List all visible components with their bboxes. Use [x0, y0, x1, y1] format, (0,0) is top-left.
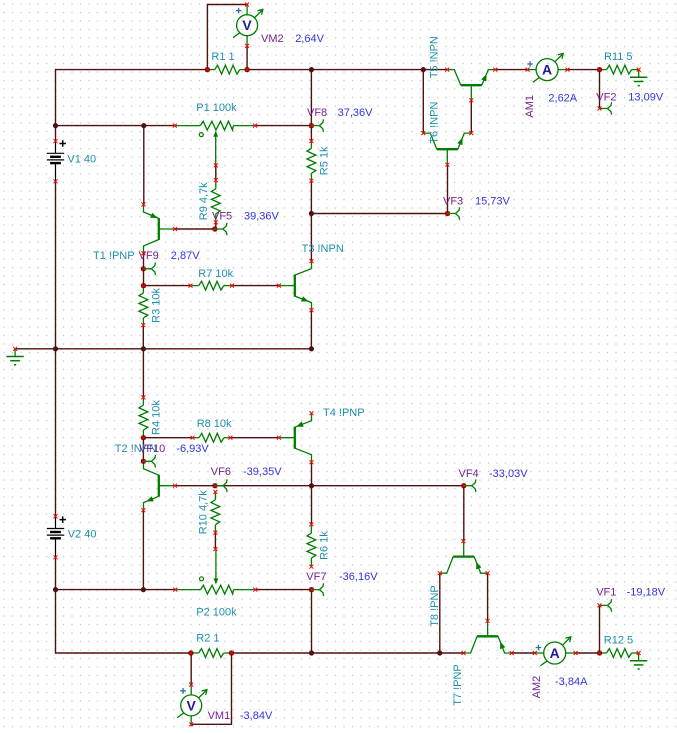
- terminal x (191.2,724.3): [189, 722, 193, 726]
- terminal x (638.6,653): [637, 651, 641, 655]
- terminal x (215.8,165.4): [214, 163, 218, 167]
- wire T3 emitter down to mid rail: [310, 310, 312, 349]
- terminal x (463.4,541.1): [461, 539, 465, 543]
- wire R7 right to T3 base: [232, 285, 279, 287]
- terminal x (311.4,141): [309, 139, 313, 143]
- resistor R3: [139, 286, 148, 326]
- junction (190.9,653): [188, 650, 193, 655]
- resistor R12: [600, 649, 639, 658]
- terminal x (190.5,285.6): [189, 284, 193, 288]
- terminal x (255.3,589.6): [253, 588, 257, 592]
- transistor T6: [423, 133, 471, 165]
- svg-text:R3 10k: R3 10k: [151, 287, 163, 322]
- terminal x (215.4,549): [213, 547, 217, 551]
- resistor R9: [211, 180, 220, 222]
- wire R5 bottom through VF3 junction to T3 collector: [310, 181, 312, 261]
- svg-text:T7 !PNP: T7 !PNP: [452, 664, 464, 706]
- wire R10 bottom to P2 wiper: [214, 533, 216, 549]
- terminal x (487.6,620.8): [486, 619, 490, 623]
- wire node VF7 down to bottom rail: [311, 590, 313, 653]
- svg-text:VF8: VF8: [307, 107, 327, 119]
- voltage pin VF3 at node VF3: [445, 207, 460, 220]
- voltage pin VF6 at node VF6: [212, 479, 227, 492]
- svg-text:13,09V: 13,09V: [628, 91, 664, 103]
- svg-text:2,87V: 2,87V: [171, 250, 200, 262]
- wire R4 bottom junction to R8 left: [143, 437, 192, 439]
- terminal x (511.7,653): [510, 651, 514, 655]
- svg-text:VF7: VF7: [306, 571, 326, 583]
- junction (143.8,125.6): [141, 123, 146, 128]
- wire VM1 bottom loop to R2 right junction: [191, 653, 231, 724]
- terminal x (230.4,437.7): [228, 436, 232, 440]
- wire V1+ stub: [55, 126, 57, 142]
- junction (599.5,653): [597, 650, 602, 655]
- wire T1 collector through node VF9 to R3/R7 junction: [143, 253, 145, 285]
- svg-text:VF10: VF10: [139, 443, 165, 455]
- transistor T5: [447, 70, 495, 101]
- voltage pin VF4 at node VF4: [461, 479, 476, 492]
- svg-text:VF2: VF2: [596, 91, 616, 103]
- svg-text:AM1: AM1: [524, 95, 536, 118]
- terminal x (447.2,69.6): [445, 68, 449, 72]
- wire node VF3 row: [311, 213, 447, 215]
- svg-text:V: V: [187, 697, 197, 713]
- terminal x (175.3,589.6): [173, 588, 177, 592]
- terminal x (311.4,524.4): [309, 522, 313, 526]
- wire T2 emitter down to P2 row: [142, 510, 144, 589]
- wire R3 bottom to mid rail: [142, 325, 144, 349]
- svg-text:R6 1k: R6 1k: [318, 531, 330, 560]
- junction (143.4,589.6): [141, 587, 146, 592]
- wire node VF4 row: [312, 485, 464, 487]
- svg-text:2,62A: 2,62A: [548, 93, 577, 105]
- voltage pin VF8 at node VF8: [309, 119, 324, 132]
- wire T8 collector down to bottom rail: [439, 573, 441, 653]
- resistor R10: [211, 492, 220, 533]
- svg-text:-33,03V: -33,03V: [489, 468, 528, 480]
- svg-text:-3,84A: -3,84A: [555, 676, 588, 688]
- wire VM2 loop from R1 left up and right: [207, 5, 247, 70]
- svg-text:AM2: AM2: [531, 676, 543, 699]
- terminal x (247.1,45.9): [245, 44, 249, 48]
- svg-text:VF1: VF1: [596, 586, 616, 598]
- junction (599.5,69.6): [597, 67, 602, 72]
- transistor T8: [440, 541, 488, 573]
- wire mid rail down to V2+: [55, 349, 57, 517]
- terminal x (311.5,261.1): [310, 259, 314, 263]
- wire R8 right to T4 base: [230, 437, 279, 439]
- junction (143.4,437.7): [141, 435, 146, 440]
- svg-text:R1 1: R1 1: [211, 51, 234, 63]
- battery V1: [47, 140, 66, 181]
- wire T1 base to node VF5: [175, 228, 215, 230]
- svg-text:VF6: VF6: [211, 466, 231, 478]
- terminal x (143.3,325.2): [141, 323, 145, 327]
- transistor T7: [464, 621, 512, 653]
- terminal x (143.4,253.2): [141, 251, 145, 255]
- transistor T4: [279, 413, 312, 462]
- junction (55.5,125.6): [53, 123, 58, 128]
- ground bottom-right: [630, 653, 647, 669]
- voltage pin VF10 at node VF10: [141, 455, 156, 468]
- terminal x (439.8,573.2): [438, 571, 442, 575]
- wire mid rail from ground to T3/T4 column: [15, 348, 311, 350]
- wire top-left rail V1+ up to top rail toward R1: [56, 70, 208, 126]
- svg-text:V: V: [242, 17, 252, 33]
- terminal x (215.4,532.6): [213, 531, 217, 535]
- wire AM2 to node VF1 junction: [576, 652, 600, 654]
- wire T4 emitter down through junction to R6 top: [311, 462, 313, 524]
- svg-text:T8 !PNP: T8 !PNP: [429, 585, 441, 627]
- svg-text:VM2: VM2: [261, 33, 284, 45]
- terminal x (174.8,125.6): [173, 124, 177, 128]
- wire node VF1 up: [599, 605, 601, 653]
- wire P2 row: [56, 589, 176, 591]
- wire T5 base down to T6 emitter: [470, 100, 472, 133]
- junction (247.1,69.6): [245, 67, 250, 72]
- wire T6 collector up to top rail: [422, 70, 424, 134]
- svg-text:R2 1: R2 1: [196, 633, 219, 645]
- svg-text:P2 100k: P2 100k: [196, 606, 237, 618]
- transistor T1: [144, 205, 176, 254]
- wire node VF8 down to R5 top: [310, 126, 312, 141]
- wire top rail junction down to node VF8: [310, 70, 312, 126]
- terminal x (55.5,181.3): [54, 179, 58, 183]
- potentiometer P1: [175, 121, 255, 165]
- resistor R11: [600, 65, 639, 74]
- svg-text:T1 !PNP: T1 !PNP: [93, 250, 135, 262]
- wire P1 right terminal to node VF8: [255, 125, 311, 127]
- resistor R1: [207, 65, 247, 74]
- svg-text:15,73V: 15,73V: [475, 195, 511, 207]
- terminal x (143.4,397.4): [141, 395, 145, 399]
- terminal x (311.4,180.7): [309, 179, 313, 183]
- wire T2 base to node VF6: [175, 485, 215, 487]
- terminal x (575.6,653): [574, 651, 578, 655]
- wire T5 emitter to AM1: [495, 69, 527, 71]
- terminal x (143.5,204.5): [142, 203, 146, 207]
- svg-text:-19,18V: -19,18V: [627, 586, 666, 598]
- terminal x (278.9,285.6): [277, 284, 281, 288]
- terminal x (175,229): [173, 227, 177, 231]
- svg-text:R9 4,7k: R9 4,7k: [198, 182, 210, 220]
- wire junction to R7 left: [144, 285, 191, 287]
- wire T8 emitter down to T7 base: [487, 573, 489, 621]
- svg-text:T6 !NPN: T6 !NPN: [429, 101, 441, 143]
- terminal x (247.1,4.5): [245, 3, 249, 7]
- voltage pin VF5 at node VF5: [212, 223, 227, 236]
- terminal x (278.9,437.7): [277, 436, 281, 440]
- wire V2- down to P2 row: [55, 557, 57, 589]
- svg-text:R8 10k: R8 10k: [197, 418, 232, 430]
- wire R9 bottom to node VF5: [215, 222, 217, 229]
- junction (311.5,653): [309, 650, 314, 655]
- svg-text:P1 100k: P1 100k: [196, 102, 237, 114]
- voltmeter VM1: [177, 685, 207, 727]
- battery V2: [47, 516, 66, 556]
- terminal x (55.5,516.4): [54, 514, 58, 518]
- terminal x (55.5,557.3): [54, 555, 58, 559]
- junction (143.5,285.6): [141, 283, 146, 288]
- resistor R6: [307, 524, 316, 566]
- ammeter AM1: [527, 53, 568, 82]
- voltage pin VF7 at node VF7: [309, 583, 324, 596]
- junction (231.5,653): [229, 650, 234, 655]
- ground top-right: [630, 70, 647, 86]
- wire mid rail down to R4 top: [142, 349, 144, 398]
- terminal x (447.4,164.7): [445, 163, 449, 167]
- transistor T3: [279, 261, 312, 310]
- terminal x (215.8,180.2): [214, 178, 218, 182]
- svg-text:T4 !PNP: T4 !PNP: [323, 407, 365, 419]
- junction (311.4,213.5): [309, 211, 314, 216]
- wire P2 right to node VF7: [255, 589, 311, 591]
- ammeter AM2: [535, 637, 576, 666]
- svg-text:-36,16V: -36,16V: [339, 571, 378, 583]
- junction (143.4,348.8): [141, 346, 146, 351]
- potentiometer P2: [175, 549, 255, 594]
- terminal x (487.6,573.2): [486, 571, 490, 575]
- junction (311.4,69.6): [309, 67, 314, 72]
- terminal x (175,485.7): [173, 484, 177, 488]
- terminal x (534.8,653): [533, 651, 537, 655]
- voltage pin VF2 at node VF2: [598, 102, 612, 115]
- svg-text:VF3: VF3: [443, 195, 463, 207]
- terminal x (423.3,133.1): [421, 131, 425, 135]
- resistor R8: [193, 433, 231, 442]
- junction (423.3,69.6): [421, 67, 426, 72]
- wire left rail corner to R2 left: [56, 590, 191, 653]
- svg-text:37,36V: 37,36V: [338, 107, 374, 119]
- svg-text:A: A: [550, 645, 560, 661]
- wire V1+ row down to T1 emitter: [143, 126, 145, 205]
- wire node VF6 to T4 emitter column: [215, 485, 312, 487]
- junction (311.4,348.8): [309, 346, 314, 351]
- terminal x (15.1,348.8): [13, 347, 17, 351]
- resistor R7: [191, 281, 233, 290]
- wire AM1 to node VF2 junction: [568, 69, 600, 71]
- terminal x (638.7,69.6): [637, 68, 641, 72]
- wire V1+ row to P1 left: [56, 125, 175, 127]
- svg-text:VF4: VF4: [459, 468, 479, 480]
- wire T6 base down to node VF3: [447, 165, 449, 214]
- svg-text:R10 4,7k: R10 4,7k: [198, 490, 210, 535]
- terminal x (215.8,222.3): [214, 220, 218, 224]
- ground mid-left: [6, 349, 23, 365]
- svg-text:R5 1k: R5 1k: [318, 146, 330, 175]
- svg-text:R11 5: R11 5: [604, 51, 633, 63]
- terminal x (55.5,141.2): [54, 139, 58, 143]
- voltage pin VF1 at node VF1: [598, 599, 612, 612]
- wire P1 wiper to R9 top: [215, 165, 217, 180]
- svg-text:2,64V: 2,64V: [295, 33, 324, 45]
- wire top rail R1 right to T5 collector: [247, 69, 447, 71]
- junction (439.8,653): [437, 650, 442, 655]
- terminal x (255.1,125.6): [253, 124, 257, 128]
- terminal x (311.5,413.2): [310, 411, 314, 415]
- wire R4 junction down to node VF10: [142, 438, 144, 462]
- voltage pin VF9 at node VF9: [141, 262, 156, 275]
- junction (55.5,348.8): [53, 346, 58, 351]
- terminal x (527.5,69.6): [526, 68, 530, 72]
- terminal x (463.5,653): [462, 651, 466, 655]
- svg-text:R12 5: R12 5: [604, 635, 633, 647]
- terminal x (311.4,566.7): [309, 565, 313, 569]
- svg-text:39,36V: 39,36V: [244, 211, 280, 223]
- wire node VF2 down: [599, 70, 601, 109]
- wire VM1 top from R2 left junction: [190, 653, 192, 685]
- terminal x (215.4,491.9): [213, 490, 217, 494]
- terminal x (143.4,510.2): [141, 508, 145, 512]
- terminal x (495.3,69.6): [493, 68, 497, 72]
- svg-text:T3 !NPN: T3 !NPN: [302, 243, 344, 255]
- terminal x (232,285.6): [230, 284, 234, 288]
- svg-text:-6,93V: -6,93V: [176, 443, 209, 455]
- wire node VF4 down to T8 base: [463, 486, 465, 541]
- terminal x (311.5,310.1): [310, 308, 314, 312]
- svg-text:V1 40: V1 40: [67, 154, 96, 166]
- voltmeter VM2: [233, 4, 263, 46]
- wire VM2 bottom to R1 right junction: [246, 46, 248, 70]
- wire V1- down to mid rail: [55, 181, 57, 348]
- svg-text:R4 10k: R4 10k: [150, 400, 162, 435]
- svg-text:VM1: VM1: [208, 710, 231, 722]
- resistor R5: [307, 141, 316, 181]
- resistor R4: [139, 397, 148, 437]
- transistor T2: [144, 461, 176, 510]
- junction (207.4,69.6): [205, 67, 210, 72]
- svg-text:R7 10k: R7 10k: [198, 268, 233, 280]
- resistor R2: [191, 649, 232, 658]
- svg-text:A: A: [542, 62, 552, 78]
- wire bottom rail R2 right to T7 collector: [232, 652, 464, 654]
- svg-text:T5 !NPN: T5 !NPN: [429, 36, 441, 78]
- svg-text:V2 40: V2 40: [68, 529, 97, 541]
- terminal x (471.3,100.3): [469, 98, 473, 102]
- svg-text:-39,35V: -39,35V: [243, 466, 282, 478]
- junction (55.5,589.6): [53, 587, 58, 592]
- terminal x (192.5,437.7): [191, 436, 195, 440]
- svg-text:-3,84V: -3,84V: [240, 710, 273, 722]
- terminal x (567.5,69.6): [566, 68, 570, 72]
- junction (311.5,485.7): [309, 483, 314, 488]
- terminal x (191.2,684.6): [189, 683, 193, 687]
- wire T7 emitter to AM2: [512, 652, 535, 654]
- terminal x (471.3,133.1): [469, 131, 473, 135]
- terminal x (311.5,462.2): [310, 460, 314, 464]
